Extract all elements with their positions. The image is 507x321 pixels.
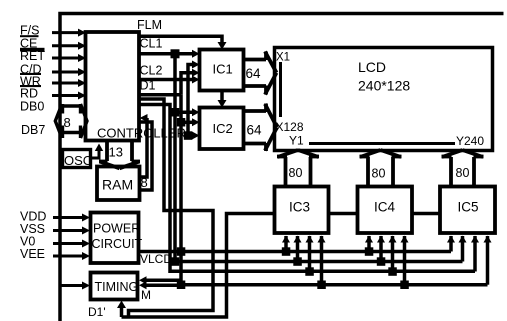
svg-text:FLM: FLM	[137, 18, 162, 32]
svg-text:IC5: IC5	[458, 200, 479, 215]
svg-text:13: 13	[109, 145, 123, 160]
svg-text:D1': D1'	[88, 305, 106, 319]
svg-text:LCD: LCD	[358, 59, 386, 75]
svg-text:8: 8	[64, 115, 71, 130]
svg-text:IC4: IC4	[374, 200, 396, 215]
svg-text:CIRCUIT: CIRCUIT	[92, 237, 143, 251]
svg-text:Y1: Y1	[289, 133, 304, 147]
svg-text:IC2: IC2	[213, 121, 233, 136]
svg-text:80: 80	[289, 166, 303, 180]
svg-text:X1: X1	[276, 52, 290, 64]
svg-text:80: 80	[456, 166, 470, 180]
svg-text:POWER: POWER	[93, 222, 140, 236]
svg-text:RD: RD	[20, 87, 38, 101]
svg-text:OSC: OSC	[64, 153, 92, 168]
svg-text:M: M	[141, 288, 151, 302]
svg-text:240*128: 240*128	[358, 78, 410, 94]
svg-text:IC1: IC1	[213, 62, 233, 77]
svg-text:CL1: CL1	[140, 37, 163, 51]
svg-text:TIMING: TIMING	[95, 280, 139, 294]
svg-text:RAM: RAM	[102, 177, 133, 193]
svg-text:DB7: DB7	[21, 123, 45, 137]
svg-text:64: 64	[246, 66, 262, 81]
svg-text:DB0: DB0	[20, 100, 44, 114]
svg-text:VEE: VEE	[20, 247, 45, 261]
svg-text:64: 64	[247, 123, 263, 138]
svg-text:80: 80	[372, 167, 386, 181]
svg-text:VLCD: VLCD	[140, 252, 172, 266]
svg-text:X128: X128	[276, 120, 304, 134]
svg-text:CONTROLLER: CONTROLLER	[97, 126, 186, 141]
svg-text:8: 8	[141, 175, 148, 190]
svg-text:D1: D1	[140, 79, 156, 93]
svg-text:Y240: Y240	[456, 134, 484, 148]
svg-text:CL2: CL2	[140, 64, 163, 78]
svg-text:IC3: IC3	[289, 200, 310, 215]
